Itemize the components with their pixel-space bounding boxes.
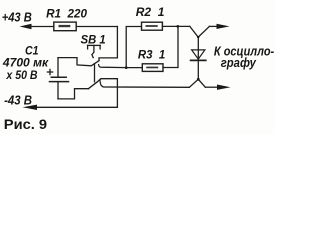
wire output lower xyxy=(100,81,189,88)
switch SB1 contact 1 xyxy=(58,58,99,66)
wire xyxy=(99,27,117,61)
resistor R2 xyxy=(142,22,163,30)
resistor R1 xyxy=(54,22,76,31)
svg-text:графу: графу xyxy=(221,56,257,70)
svg-text:R3 1: R3 1 xyxy=(138,48,166,62)
switch SB1 actuator xyxy=(88,44,101,46)
svg-text:SB 1: SB 1 xyxy=(81,32,106,46)
svg-text:-43 В: -43 В xyxy=(4,94,32,108)
wire xyxy=(162,25,189,27)
svg-text:+43 В: +43 В xyxy=(2,10,32,24)
wire xyxy=(209,25,217,27)
wire xyxy=(163,26,178,67)
node output arrow upper xyxy=(217,24,230,29)
switch SB1 link bar xyxy=(94,64,96,82)
node output arrow lower xyxy=(217,85,231,90)
resistor R3 xyxy=(142,64,163,72)
capacitor C1 xyxy=(57,58,59,77)
wire xyxy=(31,26,54,28)
plus mark xyxy=(47,71,52,73)
svg-text:R1 220: R1 220 xyxy=(46,7,87,21)
diode VD1 xyxy=(197,37,199,79)
wire xyxy=(205,86,217,88)
wire xyxy=(126,67,142,69)
node -43 V arrow xyxy=(23,105,38,110)
wire xyxy=(37,79,118,108)
node junction upper fork xyxy=(190,26,210,37)
switch SB1 contact 2 xyxy=(88,79,101,89)
wire R2 R3 branch left xyxy=(126,27,141,68)
node junction lower fork xyxy=(189,79,205,87)
svg-text:R2 1: R2 1 xyxy=(136,5,165,19)
node +43 V arrow xyxy=(20,24,32,29)
svg-text:Рис. 9: Рис. 9 xyxy=(4,116,48,132)
wire contact1 to R3 node xyxy=(99,65,127,68)
svg-text:x 50 В: x 50 В xyxy=(6,68,38,82)
wire xyxy=(76,26,117,28)
wire xyxy=(58,89,88,99)
